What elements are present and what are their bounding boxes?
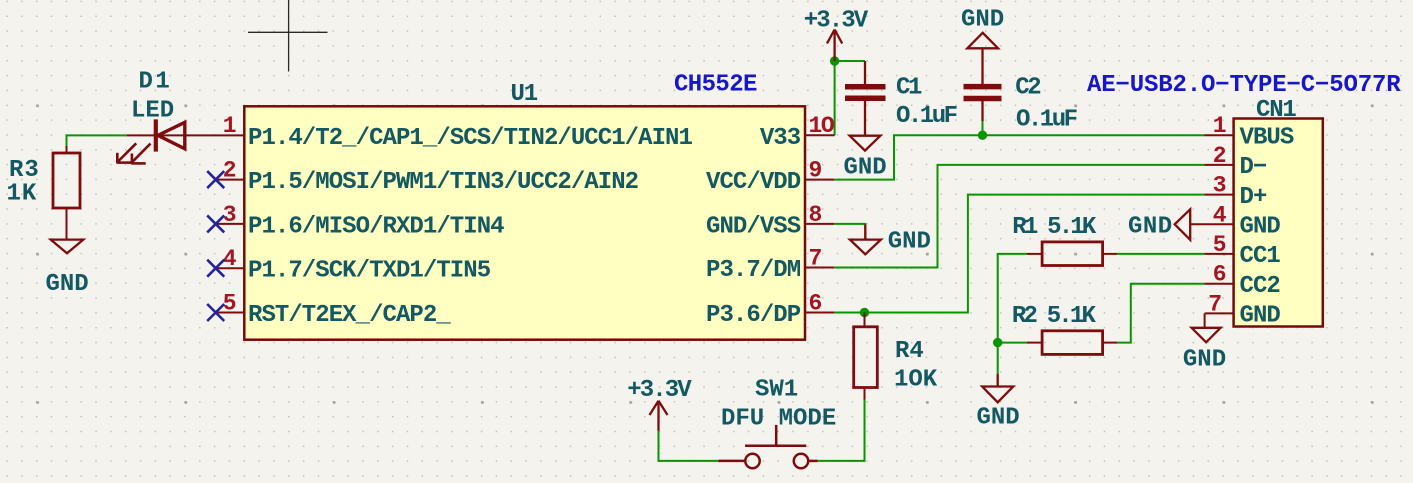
R3 bottom lead — [66, 208, 68, 240]
svg-text:4: 4 — [223, 246, 237, 272]
svg-text:4: 4 — [1213, 202, 1227, 228]
svg-text:3: 3 — [223, 202, 237, 228]
svg-text:C2: C2 — [1015, 75, 1040, 102]
svg-text:SW1: SW1 — [755, 377, 798, 404]
svg-text:R2 5.1K: R2 5.1K — [1012, 303, 1097, 330]
sheet origin crosshair — [248, 0, 328, 72]
no-connect X pin5 — [207, 304, 224, 321]
IC U1 body — [244, 106, 805, 339]
svg-text:DFU MODE: DFU MODE — [721, 406, 836, 433]
connector CN1 body — [1234, 119, 1323, 327]
svg-text:CN1: CN1 — [1256, 97, 1296, 124]
svg-text:C1: C1 — [896, 75, 922, 102]
svg-text:D−: D− — [1240, 154, 1267, 181]
svg-text:6: 6 — [1213, 262, 1227, 288]
svg-text:GND: GND — [1240, 303, 1281, 330]
svg-text:D+: D+ — [1240, 184, 1267, 211]
no-connect X pin4 — [207, 260, 224, 277]
R2 leads — [1027, 342, 1042, 344]
svg-text:1: 1 — [223, 113, 237, 139]
svg-text:P1.7/SCK/TXD1/TIN5: P1.7/SCK/TXD1/TIN5 — [248, 258, 491, 285]
svg-text:P1.6/MISO/RXD1/TIN4: P1.6/MISO/RXD1/TIN4 — [248, 213, 504, 240]
svg-text:CH552E: CH552E — [674, 71, 757, 98]
wire R1 left to GND rail — [998, 254, 1027, 374]
U1 pin 1 stub — [127, 134, 245, 136]
svg-text:6: 6 — [809, 291, 823, 317]
R3 top lead — [66, 146, 68, 153]
svg-text:O.1uF: O.1uF — [1016, 107, 1077, 134]
svg-text:7: 7 — [1208, 291, 1222, 317]
wire +3.3V to C1 — [835, 60, 865, 62]
svg-text:7: 7 — [809, 246, 823, 272]
U1 pin 5 stub — [216, 312, 245, 314]
svg-text:GND: GND — [977, 404, 1020, 431]
wire pin8 to GND — [834, 224, 865, 239]
svg-text:RST/T2EX_/CAP2_: RST/T2EX_/CAP2_ — [248, 302, 451, 329]
wire net D- (pin7 to CN1 pin2) — [834, 165, 1204, 268]
U1 pin 3 stub — [216, 223, 245, 225]
svg-text:P1.5/MOSI/PWM1/TIN3/UCC2/AIN2: P1.5/MOSI/PWM1/TIN3/UCC2/AIN2 — [248, 169, 638, 196]
ground symbol below C1 — [850, 136, 881, 151]
ground symbol below CN1 pin7 — [1192, 328, 1221, 343]
svg-text:3: 3 — [1213, 173, 1227, 199]
svg-text:1OK: 1OK — [894, 367, 938, 394]
wire R2 right to CN1 pin6 — [1117, 284, 1205, 343]
svg-text:LED: LED — [131, 98, 174, 125]
svg-text:CC2: CC2 — [1240, 273, 1280, 300]
ground symbol at pin8 — [864, 225, 866, 240]
svg-text:1O: 1O — [809, 113, 834, 139]
svg-text:GND: GND — [1240, 214, 1281, 241]
junction C2/VBUS — [978, 131, 987, 140]
svg-text:2: 2 — [223, 158, 237, 184]
svg-text:1: 1 — [1213, 113, 1227, 139]
capacitor C1 — [845, 61, 886, 136]
svg-text:GND: GND — [1183, 347, 1226, 374]
junction +3.3V/pin10 — [830, 56, 839, 65]
U1 pin 4 stub — [216, 267, 245, 269]
svg-text:R1 5.1K: R1 5.1K — [1012, 214, 1097, 241]
svg-text:GND: GND — [961, 7, 1004, 34]
svg-text:U1: U1 — [511, 81, 538, 108]
svg-text:VCC/VDD: VCC/VDD — [706, 169, 801, 196]
svg-text:5: 5 — [1213, 232, 1227, 258]
svg-text:+3.3V: +3.3V — [627, 377, 692, 404]
ground symbol at CN1 pin4 (left-pointing) — [1175, 209, 1191, 240]
svg-text:+3.3V: +3.3V — [804, 7, 869, 34]
wire R1 right to CN1 pin5 — [1117, 253, 1205, 255]
junction DP/R4 — [860, 308, 869, 317]
ground symbol below R3 — [51, 240, 84, 254]
resistor R4 — [854, 327, 878, 388]
U1 pin 6 stub — [805, 312, 834, 314]
switch SW1 — [718, 425, 817, 468]
capacitor C2 — [964, 48, 1002, 121]
svg-text:5: 5 — [223, 291, 237, 317]
U1 pin 8 stub — [805, 223, 834, 225]
U1 pin 7 stub — [805, 267, 834, 269]
svg-text:CC1: CC1 — [1240, 243, 1281, 270]
ground symbol above C2 — [967, 33, 998, 49]
ground symbol below R2 junction — [997, 374, 999, 387]
power +3.3V top — [827, 30, 842, 62]
svg-text:R4: R4 — [895, 338, 924, 365]
svg-text:1K: 1K — [7, 180, 38, 207]
svg-text:GND: GND — [888, 229, 931, 256]
wire R4 to switch to +3.3V — [818, 400, 865, 461]
wire net D+ (pin6 to CN1 pin3) — [834, 195, 1204, 313]
svg-text:O.1uF: O.1uF — [896, 103, 957, 130]
resistor R3 — [53, 153, 80, 208]
svg-text:GND: GND — [46, 271, 89, 298]
wire R3 top to LED — [67, 135, 127, 146]
wire +3.3V vertical to pin10 — [834, 61, 836, 135]
svg-text:D1: D1 — [139, 69, 173, 96]
U1 pin 9 stub — [805, 179, 834, 181]
svg-text:AE−USB2.O−TYPE−C−5O77R: AE−USB2.O−TYPE−C−5O77R — [1087, 72, 1401, 99]
svg-text:2: 2 — [1213, 143, 1227, 169]
svg-text:GND: GND — [1128, 214, 1173, 241]
R4 bottom lead — [864, 388, 866, 400]
R1 leads — [1027, 253, 1042, 255]
U1 pin 2 stub — [216, 179, 245, 181]
LED D1 — [117, 119, 185, 163]
wire C2 to VBUS junction — [982, 121, 984, 135]
R4 top lead — [864, 313, 866, 327]
junction R2/GND — [993, 338, 1002, 347]
resistor R1 — [1042, 242, 1103, 266]
no-connect X pin3 — [207, 215, 224, 232]
wire net VBUS (pin9 to CN1 pin1) — [834, 135, 1204, 179]
CN1 pin stubs — [1190, 135, 1233, 328]
svg-text:P3.6/DP: P3.6/DP — [706, 302, 801, 329]
svg-text:9: 9 — [809, 158, 823, 184]
svg-text:8: 8 — [809, 202, 823, 228]
svg-text:GND: GND — [844, 155, 887, 182]
wire R2 left — [998, 342, 1027, 344]
resistor R2 — [1042, 331, 1103, 355]
svg-text:P1.4/T2_/CAP1_/SCS/TIN2/UCC1/A: P1.4/T2_/CAP1_/SCS/TIN2/UCC1/AIN1 — [248, 125, 692, 152]
svg-text:P3.7/DM: P3.7/DM — [706, 257, 801, 284]
no-connect X pin2 — [207, 171, 224, 188]
svg-text:GND/VSS: GND/VSS — [706, 213, 801, 240]
U1 pin 10 stub — [805, 134, 835, 136]
svg-text:V33: V33 — [760, 125, 801, 152]
svg-text:VBUS: VBUS — [1240, 125, 1294, 152]
power +3.3V bottom — [650, 401, 668, 431]
